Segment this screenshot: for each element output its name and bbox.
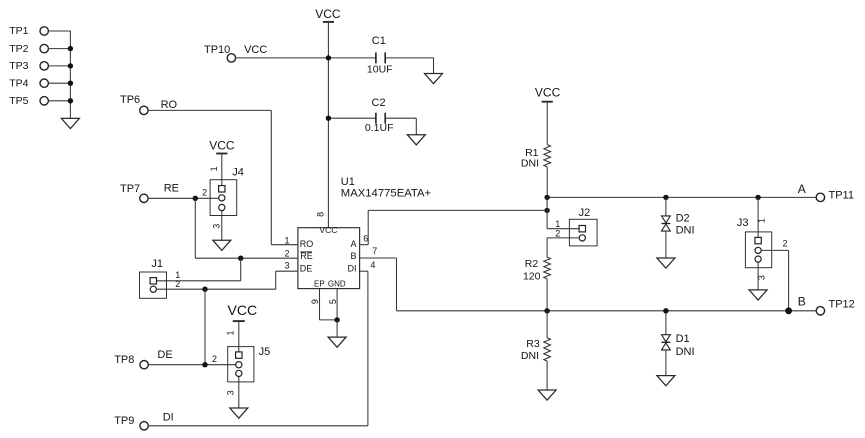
- connector J3: [737, 217, 772, 268]
- junction RE J1 branch: [238, 256, 243, 261]
- pin 2 circle of J2: [579, 235, 585, 241]
- pin number 1 of J4: [209, 166, 219, 171]
- net label RE: [164, 182, 179, 194]
- pin number 2 of U1: [284, 249, 289, 259]
- power VCC at R1: [535, 85, 561, 101]
- svg-text:A: A: [350, 239, 356, 249]
- junction A rail R1: [544, 195, 549, 200]
- svg-text:B: B: [350, 251, 356, 261]
- wire R2 to B rail: [546, 279, 548, 311]
- net label B: [798, 295, 806, 309]
- test point TP6: [120, 94, 148, 115]
- svg-text:R3: R3: [526, 338, 540, 350]
- pin number 3 of J3: [757, 275, 767, 280]
- pin number 7 of U1: [372, 246, 377, 256]
- pin number 2 of J5: [212, 354, 217, 364]
- junction VCC rail C1: [326, 55, 331, 60]
- svg-text:TP7: TP7: [120, 183, 140, 195]
- test point TP9: [114, 415, 148, 430]
- svg-text:A: A: [798, 182, 806, 196]
- wire VCC to J4 pin 1: [221, 154, 223, 185]
- wire J2 pin 2: [547, 237, 579, 239]
- resistor R2: [523, 257, 550, 282]
- pin 3 circle of J4: [219, 204, 225, 210]
- junction B rail D1: [663, 308, 668, 313]
- test point TP7: [120, 183, 148, 202]
- svg-text:C1: C1: [372, 35, 386, 47]
- test point TP4: [9, 77, 48, 89]
- svg-text:DNI: DNI: [521, 350, 539, 362]
- resistor R1: [521, 145, 551, 170]
- pin label A of U1: [350, 239, 356, 249]
- wire U1 EP pin 9: [319, 289, 321, 320]
- wire TP10 to C1: [235, 57, 376, 59]
- wire C2 ground drop: [415, 118, 417, 135]
- pin label DI of U1: [348, 263, 357, 273]
- svg-text:VCC: VCC: [319, 225, 337, 235]
- svg-text:VCC: VCC: [209, 138, 235, 152]
- svg-text:2: 2: [783, 239, 788, 249]
- test point TP1: [9, 25, 48, 37]
- wire VCC rail to C2: [328, 117, 376, 119]
- svg-text:TP5: TP5: [9, 95, 28, 107]
- svg-text:VCC: VCC: [315, 7, 341, 21]
- pin label B of U1: [350, 251, 356, 261]
- wire TP3 to bus: [48, 65, 71, 67]
- svg-text:J3: J3: [737, 217, 749, 229]
- svg-text:J4: J4: [232, 167, 244, 179]
- wire TP8 to J5 pin 2: [148, 364, 236, 366]
- wire TP4 to bus: [48, 82, 71, 84]
- svg-text:RE: RE: [164, 182, 179, 194]
- wire EP to GND join: [320, 319, 338, 321]
- test point TP12: [816, 299, 855, 315]
- wire VCC to R1: [546, 103, 548, 145]
- pin 2 circle of J1: [150, 286, 156, 292]
- pin number 3 of U1: [284, 261, 289, 271]
- svg-text:DE: DE: [300, 263, 313, 273]
- test point TP11: [816, 190, 854, 202]
- svg-text:TP8: TP8: [114, 354, 134, 366]
- ground D1: [657, 376, 675, 386]
- svg-text:2: 2: [175, 279, 180, 289]
- junction TP4 bus: [68, 81, 73, 86]
- test point TP10: [204, 44, 236, 62]
- pin 2 circle of J3: [755, 247, 761, 253]
- diode D2: [662, 212, 695, 236]
- wire DI to U1 pin 4: [360, 270, 368, 272]
- svg-text:3: 3: [284, 261, 289, 271]
- wire A to J2 vertical: [546, 197, 548, 228]
- pin 1 square of J2: [579, 226, 585, 232]
- junction A rail J3: [755, 195, 760, 200]
- svg-text:EP: EP: [314, 280, 325, 289]
- wire RO to U1 pin 1: [271, 244, 298, 246]
- junction TP5 bus: [68, 98, 73, 103]
- svg-text:DNI: DNI: [676, 224, 695, 236]
- svg-text:2: 2: [202, 188, 207, 198]
- junction VCC rail C2: [326, 116, 331, 121]
- diode D1: [662, 333, 695, 358]
- pin number 1 of J3: [757, 218, 767, 223]
- test point TP3: [9, 60, 48, 72]
- ground C2: [407, 135, 425, 145]
- pin label DE of U1: [300, 263, 313, 273]
- svg-text:J2: J2: [579, 207, 591, 219]
- svg-text:120: 120: [523, 270, 541, 282]
- svg-text:D1: D1: [676, 333, 690, 345]
- svg-text:TP11: TP11: [829, 190, 854, 202]
- svg-text:1: 1: [757, 218, 767, 223]
- wire U1 pin 6 stub: [360, 244, 369, 246]
- pin number 1 of U1: [284, 235, 289, 245]
- svg-text:1: 1: [209, 166, 219, 171]
- power VCC rail symbol: [315, 7, 341, 22]
- ground J3: [749, 290, 767, 300]
- svg-text:DE: DE: [157, 349, 172, 361]
- net label DI: [163, 411, 174, 423]
- pin number 8 of U1: [316, 212, 326, 217]
- pin label GND of U1: [328, 280, 346, 289]
- svg-text:VCC: VCC: [228, 302, 258, 318]
- pin 2 circle of J4: [219, 195, 225, 201]
- wire J3 pin 2 horizontal: [761, 249, 788, 251]
- wire B rail: [397, 310, 817, 312]
- pin number 4 of U1: [370, 260, 375, 270]
- wire J5 pin 3 to ground: [238, 377, 240, 409]
- pin number 2 of J2: [555, 229, 560, 239]
- wire DE vertical to TP8: [204, 289, 206, 365]
- refdes U1: [341, 176, 355, 188]
- wire TP bus vertical: [69, 31, 71, 118]
- svg-text:3: 3: [225, 390, 235, 395]
- pin label RO of U1: [300, 239, 314, 249]
- junction A rail D2: [663, 195, 668, 200]
- pin label VCC of U1: [319, 225, 337, 235]
- power VCC at J4: [209, 138, 235, 153]
- svg-text:D2: D2: [676, 212, 690, 224]
- junction A net at J2 column: [544, 208, 549, 213]
- wire A net horizontal: [368, 209, 547, 211]
- wire C1 to ground corner: [385, 57, 433, 59]
- svg-text:3: 3: [211, 224, 221, 229]
- pin number 5 of U1: [328, 299, 338, 304]
- svg-text:1: 1: [225, 330, 235, 335]
- wire B rail to D1: [665, 311, 667, 335]
- svg-text:TP12: TP12: [829, 299, 855, 311]
- svg-text:TP6: TP6: [120, 94, 140, 106]
- wire U1 pin 7 stub: [360, 257, 397, 259]
- svg-text:TP4: TP4: [9, 77, 28, 89]
- pin 1 square of J3: [755, 237, 761, 243]
- ground J4: [213, 240, 231, 250]
- op-amp U1 MAX14775EATA+ body: [298, 228, 360, 289]
- svg-text:8: 8: [316, 212, 326, 217]
- pin number 3 of J5: [225, 390, 235, 395]
- svg-text:DNI: DNI: [676, 346, 695, 358]
- connector J1: [140, 258, 167, 298]
- wire J4 pin 3 to ground: [221, 211, 223, 241]
- wire VCC rail vertical to U1 pin 8: [327, 23, 329, 228]
- ground TP bus: [61, 118, 79, 128]
- wire J3 pin 3 to ground: [757, 262, 759, 290]
- wire A rail to J3 pin 1: [757, 197, 759, 237]
- wire VCC to J5 pin 1: [238, 322, 240, 352]
- svg-text:TP10: TP10: [204, 44, 230, 56]
- capacitor C1: [367, 35, 393, 75]
- wire J2 pin 1: [547, 228, 579, 230]
- net label RO: [161, 99, 178, 111]
- svg-text:2: 2: [555, 229, 560, 239]
- svg-text:9: 9: [310, 299, 320, 304]
- connector J4: [210, 167, 244, 216]
- svg-text:4: 4: [370, 260, 375, 270]
- svg-text:RO: RO: [161, 99, 178, 111]
- wire DI vertical: [367, 271, 369, 426]
- pin 1 square of J4: [219, 186, 225, 192]
- wire J2 pin 2 to R2: [546, 238, 548, 257]
- pin 1 square of J5: [236, 352, 242, 358]
- test point TP8: [114, 354, 148, 369]
- wire U1 ground drop: [336, 320, 338, 337]
- junction TP3 bus: [68, 63, 73, 68]
- wire J1 pin 1 horizontal: [156, 280, 240, 282]
- pin 3 circle of J3: [755, 256, 761, 262]
- wire A net vertical up: [367, 210, 369, 244]
- net label A: [798, 182, 806, 196]
- junction B rail J3: [785, 307, 792, 314]
- junction RE net: [193, 196, 198, 201]
- svg-text:1: 1: [284, 235, 289, 245]
- wire TP2 to bus: [48, 48, 71, 50]
- net label VCC: [244, 44, 267, 56]
- junction TP2 bus: [68, 46, 73, 51]
- svg-text:10UF: 10UF: [367, 64, 393, 76]
- connector J2: [569, 207, 597, 246]
- pin 1 square of J1: [150, 278, 156, 284]
- pin number 3 of J4: [211, 224, 221, 229]
- wire C1 ground drop: [433, 58, 435, 74]
- svg-text:5: 5: [328, 299, 338, 304]
- svg-text:RO: RO: [300, 239, 314, 249]
- pin number 1 of J5: [225, 330, 235, 335]
- svg-text:6: 6: [363, 234, 368, 244]
- junction U1 ground: [334, 317, 339, 322]
- wire A rail: [547, 196, 816, 198]
- wire RE to U1 pin 2: [195, 257, 298, 259]
- svg-text:GND: GND: [328, 280, 346, 289]
- wire R1 to A rail: [546, 167, 548, 198]
- wire TP9 horizontal: [148, 425, 368, 427]
- pin number 2 of J1: [175, 279, 180, 289]
- svg-text:TP9: TP9: [114, 415, 134, 427]
- wire TP1 to bus: [48, 30, 71, 32]
- wire DE to U1 vertical: [275, 271, 277, 289]
- connector J5: [228, 346, 271, 382]
- ground U1: [328, 337, 346, 347]
- svg-text:DNI: DNI: [521, 158, 539, 170]
- wire TP7 to J4 pin 2: [148, 197, 219, 199]
- svg-text:U1: U1: [341, 176, 355, 188]
- svg-text:VCC: VCC: [535, 85, 561, 99]
- svg-text:7: 7: [372, 246, 377, 256]
- pin number 1 of J2: [555, 219, 560, 229]
- junction DE TP8: [202, 362, 207, 367]
- svg-text:2: 2: [212, 354, 217, 364]
- wire D1 to ground: [665, 350, 667, 376]
- test point TP2: [9, 43, 48, 55]
- capacitor C2: [365, 97, 394, 134]
- ground D2: [657, 258, 675, 268]
- pin number 2 of J4: [202, 188, 207, 198]
- svg-text:TP1: TP1: [9, 25, 28, 37]
- wire RE vertical: [194, 198, 196, 258]
- svg-text:2: 2: [284, 249, 289, 259]
- ground R3: [538, 390, 556, 400]
- wire B net vertical down: [396, 258, 398, 311]
- svg-text:TP2: TP2: [9, 43, 28, 55]
- svg-text:RE: RE: [300, 251, 313, 261]
- net label DE: [157, 349, 172, 361]
- wire DE to U1 pin 3: [276, 270, 298, 272]
- pin number 1 of J1: [175, 270, 180, 280]
- svg-text:0.1UF: 0.1UF: [365, 122, 394, 134]
- pin number 2 of J3: [783, 239, 788, 249]
- test point TP5: [9, 95, 48, 107]
- wire TP5 to bus: [48, 100, 71, 102]
- pin number 6 of U1: [363, 234, 368, 244]
- wire C2 to ground corner: [385, 117, 416, 119]
- wire R3 to ground: [546, 361, 548, 390]
- resistor R3: [521, 338, 550, 362]
- svg-text:MAX14775EATA+: MAX14775EATA+: [341, 188, 432, 200]
- wire RO vertical: [270, 110, 272, 244]
- svg-text:DI: DI: [348, 263, 357, 273]
- wire J1 pin 2 horizontal: [156, 288, 275, 290]
- svg-text:TP3: TP3: [9, 60, 28, 72]
- svg-text:J5: J5: [259, 346, 271, 358]
- junction DE net: [202, 287, 207, 292]
- pin 2 circle of J5: [236, 362, 242, 368]
- wire U1 GND pin 5: [336, 289, 338, 320]
- wire J3 pin 2 to B rail: [788, 250, 790, 310]
- pin number 9 of U1: [310, 299, 320, 304]
- pin 3 circle of J5: [236, 370, 242, 376]
- svg-text:VCC: VCC: [244, 44, 267, 56]
- svg-text:R2: R2: [525, 258, 539, 270]
- wire J1 pin 1 vertical: [240, 258, 242, 281]
- svg-text:C2: C2: [372, 97, 386, 109]
- ground J5: [230, 408, 248, 418]
- wire D2 to ground: [665, 231, 667, 258]
- value MAX14775EATA+: [341, 188, 432, 200]
- wire RO horizontal: [148, 109, 271, 111]
- svg-text:DI: DI: [163, 411, 174, 423]
- svg-text:B: B: [798, 295, 806, 309]
- junction B rail R2: [544, 308, 549, 313]
- pin label RE of U1: [300, 251, 313, 261]
- ground C1: [425, 74, 443, 84]
- wire A rail to D2: [665, 197, 667, 216]
- pin label EP of U1: [314, 280, 325, 289]
- svg-text:J1: J1: [151, 258, 163, 270]
- wire B rail to R3: [546, 311, 548, 338]
- power VCC at J5: [228, 302, 258, 321]
